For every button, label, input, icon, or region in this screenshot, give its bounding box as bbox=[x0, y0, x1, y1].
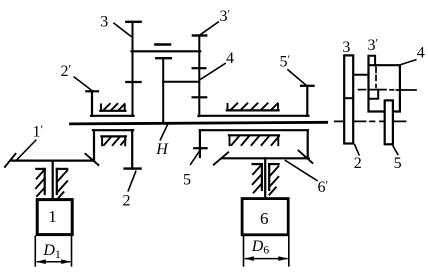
gear 6' box left side (gear 5 shaft) bbox=[199, 130, 201, 157]
svg-text:3: 3 bbox=[342, 39, 350, 56]
side view: gear 3 / gear 2 rectangle bbox=[344, 55, 353, 143]
side view: leader to 2 bbox=[355, 144, 359, 154]
bracket lower-left top bbox=[93, 129, 133, 131]
bearing pad dash above crossbar bbox=[155, 43, 170, 46]
gear 5' tooth tick bbox=[301, 85, 314, 87]
svg-text:2′: 2′ bbox=[61, 62, 72, 81]
leader to 5' bbox=[288, 70, 306, 86]
gear 3' end bar bbox=[193, 34, 206, 36]
fixed frame bracket upper-right, bottom bbox=[198, 115, 308, 117]
gear 6' box top bbox=[200, 129, 308, 131]
svg-text:3′: 3′ bbox=[368, 36, 379, 55]
svg-text:1: 1 bbox=[48, 207, 57, 226]
side view: vertical centerline of 3' bbox=[375, 67, 377, 87]
svg-text:4: 4 bbox=[417, 45, 425, 62]
svg-text:4: 4 bbox=[226, 50, 234, 67]
mesh slash bottom-right of 6' bbox=[299, 151, 313, 163]
svg-text:2: 2 bbox=[123, 193, 131, 210]
svg-text:D1: D1 bbox=[42, 242, 61, 261]
dimension D6 arrow line bbox=[246, 258, 287, 260]
carrier H vertical stem bbox=[162, 58, 164, 122]
leader to 3 bbox=[114, 23, 131, 36]
side view: leader to 5 bbox=[393, 146, 398, 155]
side view: planet centerline bbox=[359, 89, 417, 91]
fixed frame bracket upper-left, vertical 2' side bbox=[91, 91, 93, 115]
leader to 1' bbox=[17, 140, 36, 160]
dimension D6 extension lines bbox=[243, 236, 245, 265]
fixed frame bracket upper-left, bottom bbox=[91, 115, 134, 117]
svg-text:6: 6 bbox=[260, 209, 269, 228]
svg-text:2: 2 bbox=[354, 155, 362, 172]
side view: divider between gear 3 and gear 2 bbox=[344, 97, 353, 99]
side view: hub notch of gear 4 bbox=[369, 90, 379, 99]
bracket lower-left, left leg (gear 2 shaft upper) bbox=[93, 130, 95, 161]
shaft arm of gears 1-1' bbox=[11, 160, 94, 162]
gear 3 end bar bbox=[126, 21, 140, 23]
ground pad upper-right bbox=[227, 103, 279, 110]
svg-text:H: H bbox=[155, 141, 169, 158]
gear 2' tooth tick bbox=[86, 90, 98, 92]
side view: gear 3' rectangle bbox=[369, 56, 376, 65]
leader to H bbox=[160, 125, 167, 140]
leader to 2 bbox=[128, 171, 136, 191]
leader to 3' bbox=[200, 22, 218, 35]
gear 3' tooth tick upper bbox=[193, 67, 206, 69]
side view: leader to 4 bbox=[400, 60, 416, 65]
ground pad upper-left bbox=[100, 104, 125, 111]
fixed frame bracket upper-right, right vertical 5' side bbox=[306, 86, 308, 116]
gear 3 tooth tick bbox=[126, 81, 140, 83]
shaft of drum 1 bbox=[52, 161, 54, 198]
side view: shaft link 3 to 3' bbox=[353, 74, 368, 76]
gear 3' tooth tick lower bbox=[193, 96, 207, 98]
svg-text:D6: D6 bbox=[251, 238, 270, 257]
gear 6' box right side bbox=[307, 130, 309, 158]
guide block left of shaft 1 bbox=[36, 169, 45, 196]
guide block left of shaft 6 bbox=[253, 164, 262, 193]
shaft of gear block 3-3', left vertical bbox=[132, 22, 134, 116]
shaft of drum 6 bbox=[264, 158, 266, 197]
guide block right of shaft 1 bbox=[57, 169, 67, 200]
svg-text:5: 5 bbox=[183, 172, 191, 189]
side view: gear 4 rectangle bbox=[369, 56, 400, 112]
bracket lower-left, right leg (gear 2 shaft) bbox=[131, 130, 133, 168]
leader to 6' bbox=[286, 161, 318, 181]
carrier H pivot end bar bbox=[156, 57, 171, 59]
guide block right of shaft 6 bbox=[269, 164, 278, 195]
leader to 2' bbox=[74, 77, 92, 91]
gear 6' box bottom bbox=[223, 157, 309, 159]
ground pad inside 6' box bbox=[229, 135, 279, 145]
svg-text:3′: 3′ bbox=[220, 7, 231, 26]
dimension D1 arrow line bbox=[38, 261, 70, 263]
svg-text:1′: 1′ bbox=[33, 122, 44, 141]
side view: gear 5 rectangle bbox=[385, 100, 393, 144]
svg-text:5′: 5′ bbox=[280, 52, 291, 71]
bearing slash at arm left end bbox=[5, 154, 16, 167]
weight block 6 bbox=[242, 199, 288, 235]
mesh slash bottom-left of 6' bbox=[214, 152, 229, 164]
gear 2 end bar bbox=[125, 167, 141, 169]
dimension D1 extension lines bbox=[34, 236, 36, 265]
main axis line O-O (carrier axis) bbox=[71, 122, 327, 124]
crossbar joining shafts 3 and 3' bbox=[132, 50, 201, 52]
leader to 5 bbox=[191, 149, 201, 164]
gear 4 hub line to shaft 3' bbox=[163, 81, 199, 83]
side view: main centerline bbox=[335, 120, 406, 122]
ground pad lower-left bbox=[101, 136, 126, 145]
leader to 4 bbox=[201, 64, 225, 80]
svg-text:5: 5 bbox=[394, 155, 402, 172]
gear 5 tooth tick bbox=[194, 147, 206, 149]
shaft of gear block 3-3', right vertical bbox=[198, 36, 200, 117]
svg-text:3: 3 bbox=[100, 13, 108, 30]
mesh tick gear 1'-2 bbox=[85, 154, 98, 165]
svg-text:6′: 6′ bbox=[318, 178, 329, 197]
weight block 1 bbox=[37, 200, 72, 235]
